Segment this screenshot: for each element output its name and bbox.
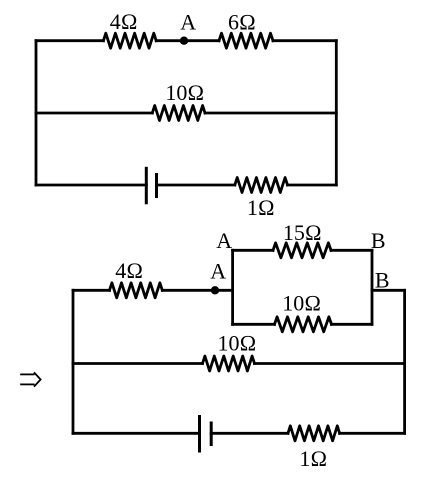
- resistor 4ohm (top circuit): [103, 33, 156, 48]
- parallel box left vertical wire: [231, 250, 234, 324]
- parallel box top-right wire segment: [331, 249, 372, 252]
- wire middle-left segment (top circuit): [36, 112, 152, 115]
- resistor 1ohm (bottom circuit): [288, 426, 340, 441]
- parallel box right vertical wire: [371, 250, 374, 324]
- wire 4ohm-to-box segment (bottom circuit): [162, 289, 232, 292]
- battery cell (top circuit) long plate: [145, 167, 148, 205]
- resistor 10ohm (parallel box bottom branch): [275, 317, 332, 332]
- resistor 4ohm (bottom circuit): [110, 283, 163, 298]
- wire bottom-left segment (top circuit): [36, 184, 146, 187]
- wire bottom-right segment (top circuit): [288, 184, 337, 187]
- wire battery-to-1ohm segment (top circuit): [157, 184, 235, 187]
- svg-text:B: B: [375, 267, 390, 292]
- wire right vertical (bottom circuit): [403, 290, 406, 433]
- resistor 1ohm (top circuit): [235, 178, 288, 193]
- wire left vertical (bottom circuit): [72, 290, 75, 433]
- svg-text:4Ω: 4Ω: [110, 9, 138, 34]
- svg-text:4Ω: 4Ω: [115, 258, 143, 283]
- battery cell (top circuit) short plate: [155, 173, 158, 198]
- resistor 10ohm (top circuit middle branch): [152, 106, 205, 121]
- wire battery-to-1ohm segment (bottom circuit): [211, 432, 288, 435]
- svg-text:1Ω: 1Ω: [299, 446, 327, 471]
- svg-text:10Ω: 10Ω: [282, 290, 321, 315]
- svg-text:10Ω: 10Ω: [165, 80, 204, 105]
- svg-text:A: A: [210, 258, 226, 283]
- battery cell (bottom circuit) short plate: [210, 422, 213, 447]
- svg-text:A: A: [216, 228, 232, 253]
- wire node B to right vertical (bottom circuit): [372, 289, 405, 292]
- wire middle-left segment (bottom circuit): [73, 362, 203, 365]
- wire top-right segment: [273, 39, 336, 42]
- wire bottom-left segment (bottom circuit): [73, 432, 200, 435]
- wire left vertical (top circuit): [35, 41, 38, 185]
- wire top-left segment: [36, 39, 103, 42]
- parallel box bottom-left wire segment: [233, 323, 275, 326]
- wire right vertical (top circuit): [335, 41, 338, 185]
- wire main-left segment (bottom circuit): [73, 289, 110, 292]
- implies arrow (double right arrow): [20, 372, 40, 386]
- wire middle-right segment (top circuit): [205, 112, 336, 115]
- battery cell (bottom circuit) long plate: [198, 415, 201, 453]
- parallel box top-left wire segment: [233, 249, 273, 252]
- wire middle-right segment (bottom circuit): [255, 362, 405, 365]
- node A (top circuit): [180, 37, 188, 45]
- svg-text:10Ω: 10Ω: [218, 330, 257, 355]
- resistor 10ohm (bottom circuit middle branch): [203, 356, 255, 371]
- svg-text:A: A: [180, 9, 196, 34]
- svg-text:1Ω: 1Ω: [247, 195, 275, 220]
- resistor 15ohm (parallel box top branch): [273, 243, 331, 258]
- resistor 6ohm (top circuit): [219, 33, 273, 48]
- wire between 4ohm and 6ohm (top circuit): [156, 39, 219, 42]
- svg-text:6Ω: 6Ω: [228, 9, 256, 34]
- parallel box bottom-right wire segment: [332, 323, 373, 326]
- node A (bottom circuit): [211, 286, 219, 294]
- wire bottom-right segment (bottom circuit): [340, 432, 405, 435]
- svg-text:15Ω: 15Ω: [283, 220, 322, 245]
